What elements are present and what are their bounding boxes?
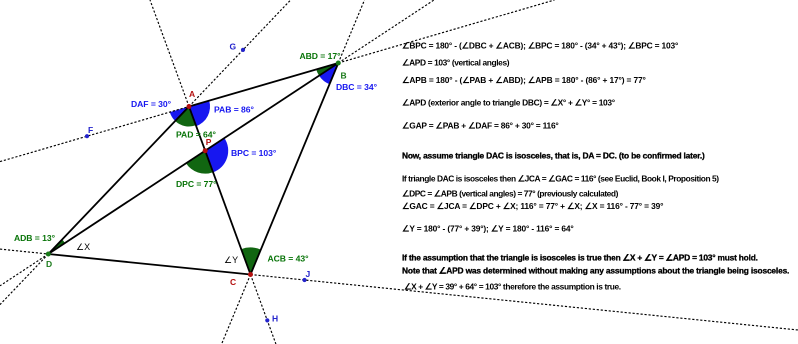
svg-text:∠X + ∠Y = 39° + 64° = 103° the: ∠X + ∠Y = 39° + 64° = 103° therefore the…: [404, 282, 621, 292]
svg-text:∠GAP = ∠PAB + ∠DAF = 86° + 30°: ∠GAP = ∠PAB + ∠DAF = 86° + 30° = 116°: [402, 121, 559, 131]
svg-text:G: G: [230, 42, 237, 52]
svg-text:H: H: [272, 314, 278, 324]
svg-text:F: F: [88, 125, 93, 135]
svg-text:DBC = 34°: DBC = 34°: [336, 82, 378, 92]
svg-text:∠APB = 180° - (∠PAB + ∠ABD);: ∠APB = 180° - (∠PAB + ∠ABD); ∠APB = 180°…: [402, 75, 646, 85]
svg-text:B: B: [341, 71, 347, 81]
svg-text:DPC = 77°: DPC = 77°: [176, 179, 217, 189]
svg-text:∠X: ∠X: [76, 242, 90, 252]
svg-text:∠Y: ∠Y: [224, 255, 238, 265]
svg-text:J: J: [306, 269, 311, 279]
svg-text:If the assumption that the tri: If the assumption that the triangle is i…: [402, 253, 758, 263]
svg-text:ADB = 13°: ADB = 13°: [14, 233, 56, 243]
svg-text:If triangle DAC is isosceles t: If triangle DAC is isosceles then ∠JCA =…: [402, 174, 719, 184]
svg-text:∠BPC = 180° - (∠DBC + ∠ACB);: ∠BPC = 180° - (∠DBC + ∠ACB); ∠BPC = 180°…: [402, 41, 678, 51]
svg-text:PAB = 86°: PAB = 86°: [214, 105, 254, 115]
svg-text:P: P: [206, 137, 212, 147]
svg-text:C: C: [230, 277, 236, 287]
svg-text:Note that ∠APD was determined: Note that ∠APD was determined without ma…: [402, 266, 789, 276]
svg-text:Now, assume triangle DAC is is: Now, assume triangle DAC is isosceles, t…: [402, 151, 705, 161]
svg-text:∠APD = 103° (vertical angles): ∠APD = 103° (vertical angles): [402, 58, 510, 68]
svg-text:ACB = 43°: ACB = 43°: [268, 254, 310, 264]
svg-text:D: D: [46, 259, 52, 269]
svg-text:∠GAC = ∠JCA = ∠DPC + ∠X; 116°: ∠GAC = ∠JCA = ∠DPC + ∠X; 116° = 77° + ∠X…: [402, 201, 663, 211]
svg-text:A: A: [189, 89, 195, 99]
svg-text:DAF = 30°: DAF = 30°: [131, 99, 172, 109]
svg-text:ABD = 17°: ABD = 17°: [300, 51, 342, 61]
svg-text:∠APD (exterior angle to triang: ∠APD (exterior angle to triangle DBC) = …: [402, 98, 615, 108]
svg-text:∠Y = 180° - (77° + 39°); ∠Y =: ∠Y = 180° - (77° + 39°); ∠Y = 180° - 116…: [402, 224, 574, 234]
svg-text:BPC = 103°: BPC = 103°: [231, 148, 277, 158]
svg-text:∠DPC = ∠APB (vertical angles): ∠DPC = ∠APB (vertical angles) = 77° (pre…: [402, 189, 619, 199]
